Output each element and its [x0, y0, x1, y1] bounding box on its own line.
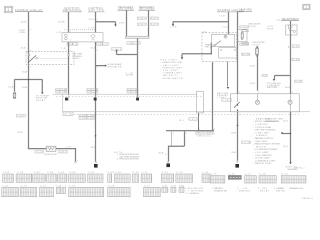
svg-text:RELAY: RELAY	[205, 45, 214, 48]
svg-text:7.5-R: 7.5-R	[222, 27, 228, 29]
ECU name label boxes	[196, 132, 214, 135]
svg-text:(R): (R)	[91, 39, 95, 41]
svg-text:- ROOM LIGHT L-B: - ROOM LIGHT L-B	[161, 78, 184, 80]
arrowhead turn signal down	[273, 79, 275, 81]
ground square S3	[136, 98, 139, 101]
arrowhead L8 down	[227, 87, 229, 89]
svg-text:2: 2	[258, 92, 259, 94]
svg-text:- LIGHTING: - LIGHTING	[254, 124, 269, 126]
connector label C-23	[242, 30, 249, 32]
svg-text:COMB C-05: COMB C-05	[128, 43, 141, 45]
svg-text:- DAYTIME RUNNING: - DAYTIME RUNNING	[254, 129, 277, 132]
svg-text:20-RW: 20-RW	[126, 75, 133, 77]
L6 connector label A C-16	[242, 53, 250, 55]
svg-text:6: 6	[30, 50, 31, 52]
bulb LO	[288, 100, 292, 104]
arrowhead relay corner down	[181, 57, 183, 59]
svg-text:C-40 C-41: C-40 C-41	[88, 92, 98, 94]
wire L10 thin segment inside lamp box	[290, 94, 292, 112]
svg-text:7: 7	[30, 66, 31, 68]
bracket connector label	[189, 118, 199, 121]
svg-text:C-105 3: C-105 3	[112, 49, 122, 51]
svg-text:C-40 C-41: C-40 C-41	[128, 92, 138, 94]
ECU connector bar	[166, 130, 214, 132]
wire L4a headlight LH drop	[126, 10, 128, 36]
svg-text:C-103: C-103	[80, 118, 86, 120]
svg-text:J-04: J-04	[201, 32, 206, 34]
svg-text:LIGHT: LIGHT	[72, 58, 80, 60]
svg-text:- TURN-SIGNAL: - TURN-SIGNAL	[254, 126, 272, 129]
boundary line B dashed	[64, 113, 300, 115]
wire L1 horizontal run to rheostat	[28, 148, 76, 150]
J/B dashed box	[202, 33, 237, 62]
mid bottom footnote texts	[184, 188, 204, 195]
svg-text:L-R: L-R	[57, 32, 61, 34]
junction dot L10 branch	[290, 133, 292, 135]
svg-text:C-08 2: C-08 2	[222, 100, 230, 102]
svg-text:- HEADLIGHT AIM: - HEADLIGHT AIM	[161, 61, 182, 64]
svg-text:7-B: 7-B	[276, 19, 281, 21]
dimmer switch dashed box	[26, 52, 74, 65]
svg-text:- DIMMER: - DIMMER	[254, 135, 268, 137]
connector label C-24	[17, 114, 26, 117]
svg-text:C-14: C-14	[202, 172, 209, 174]
svg-text:- TAIL LIGHT: - TAIL LIGHT	[161, 64, 180, 67]
dimmer switch contact arm	[29, 55, 36, 62]
svg-text:1 C-33: 1 C-33	[242, 142, 250, 144]
svg-text:DAY-LGT CONTROL: DAY-LGT CONTROL	[196, 132, 213, 135]
wire L7 relay output to control unit	[212, 62, 214, 130]
svg-text:C-30: C-30	[293, 46, 299, 48]
svg-text:15-G: 15-G	[89, 19, 94, 21]
wire L4 connector stub	[137, 97, 139, 101]
wire L4 branch left up-arrow	[117, 51, 138, 55]
svg-text:C-37 2: C-37 2	[151, 24, 158, 26]
svg-text:20-B: 20-B	[158, 152, 164, 154]
connector bracket rect	[197, 91, 204, 113]
svg-text:C-29: C-29	[68, 44, 72, 46]
svg-text:20-G: 20-G	[91, 147, 96, 149]
sheet index box 1	[4, 6, 13, 13]
svg-text:1: 1	[7, 8, 9, 12]
svg-text:FUSE: FUSE	[267, 28, 274, 30]
svg-text:20-B: 20-B	[250, 83, 256, 85]
pin ring L1 end	[75, 162, 77, 164]
svg-text:C-27: C-27	[103, 44, 107, 46]
svg-text:C-30: C-30	[73, 44, 77, 46]
svg-text:C-34: C-34	[295, 81, 301, 83]
svg-text:- BACKUP LIGHT: - BACKUP LIGHT	[254, 162, 273, 165]
wire L4 headlight common down	[137, 38, 139, 97]
svg-text:C-40 C-41: C-40 C-41	[56, 92, 66, 94]
svg-text:1 C-25: 1 C-25	[36, 152, 43, 154]
wire L10 branch to turn signal	[275, 76, 291, 80]
svg-text:1: 1	[70, 40, 71, 42]
svg-text:(0-7): (0-7)	[283, 146, 288, 148]
svg-text:- FOG LAMP: - FOG LAMP	[254, 151, 270, 154]
svg-text:C-05: C-05	[58, 172, 65, 174]
svg-text:- METER: - METER	[254, 146, 267, 148]
svg-text:I C-20: I C-20	[240, 44, 248, 46]
junction dot left branch	[28, 79, 30, 81]
connector pair labels below boundary B at L3	[79, 114, 86, 116]
arrowhead high beam right	[105, 65, 107, 67]
junction dot L3	[95, 135, 97, 137]
svg-text:4: 4	[173, 133, 174, 135]
boundary line B left closure	[62, 94, 64, 112]
svg-text:C-07: C-07	[88, 172, 95, 174]
svg-text:RELAY: RELAY	[260, 190, 270, 193]
wire ECU pin5 drop	[184, 131, 186, 146]
svg-text:INDICATOR: INDICATOR	[107, 66, 122, 69]
relay R1 diode symbol	[91, 34, 96, 38]
wire L3 arrow to high beam indicator	[96, 65, 105, 67]
bulb HI	[255, 100, 259, 104]
sheet index box 2	[303, 4, 310, 10]
svg-text:C-04: C-04	[47, 172, 54, 174]
svg-text:3: 3	[199, 129, 200, 131]
svg-text:C-24 4: C-24 4	[17, 116, 25, 118]
combination meter bar	[126, 36, 150, 38]
svg-text:25-B: 25-B	[250, 66, 256, 68]
svg-text:J-08: J-08	[170, 27, 176, 29]
svg-text:20-G: 20-G	[285, 87, 290, 89]
svg-text:15-G: 15-G	[91, 47, 96, 49]
label under comb bar	[127, 42, 140, 45]
svg-text:2: VEHICLES WITH DRL: 2: VEHICLES WITH DRL	[117, 159, 139, 161]
connector pair labels above boundary A at L3	[87, 88, 98, 90]
boundary line B body	[63, 111, 310, 113]
svg-text:20-R: 20-R	[231, 133, 236, 135]
svg-text:3: 3	[239, 92, 240, 94]
ground square S4	[94, 164, 98, 168]
connector label C-22	[242, 42, 249, 44]
svg-text:5: 5	[186, 133, 187, 135]
svg-text:W-L: W-L	[179, 120, 185, 122]
wire ECU pin4 thin drop	[171, 131, 173, 146]
svg-text:10: 10	[213, 129, 215, 131]
svg-text:C-10: C-10	[133, 172, 140, 174]
headlight relay contact	[215, 41, 222, 46]
big note list block	[254, 117, 280, 165]
svg-text:C-01: C-01	[3, 172, 10, 174]
svg-text:2: 2	[70, 30, 71, 32]
arrowhead joint conn down	[114, 25, 116, 27]
wire L6 J/B fuse feed down to ground	[237, 11, 239, 160]
svg-text:J-07: J-07	[66, 147, 71, 149]
svg-text:C-06: C-06	[69, 172, 76, 174]
dashed link relay to switch	[64, 29, 96, 31]
svg-text:- TAILLIGHT: - TAILLIGHT	[254, 140, 269, 143]
svg-text:C-26 4: C-26 4	[59, 152, 66, 154]
arrowhead H1 down	[172, 24, 174, 26]
svg-text:C-17: C-17	[245, 174, 252, 176]
wire relay output corner arrow	[182, 43, 211, 58]
arrow label up C-105	[112, 48, 122, 51]
relay box R1 passing control	[62, 33, 103, 42]
svg-text:C-15: C-15	[263, 75, 267, 77]
wire L6 thin segment inside lamp box	[237, 94, 239, 112]
wire bracket drop to ECU bar	[198, 113, 200, 130]
J/B inner fuse block	[219, 48, 237, 58]
wire L1 drop to connector pin	[75, 148, 77, 162]
svg-text:C-28: C-28	[97, 44, 101, 46]
svg-text:C-82: C-82	[88, 27, 95, 29]
svg-text:20-B: 20-B	[22, 71, 28, 73]
svg-text:SWITCH: SWITCH	[276, 191, 286, 193]
svg-text:C-39 10: C-39 10	[189, 119, 198, 121]
wire J/B output to daytime light	[227, 62, 229, 87]
arrowhead up to label	[115, 49, 117, 51]
svg-text:SWITCH: SWITCH	[267, 87, 278, 89]
svg-text:FUSE BOX: FUSE BOX	[239, 191, 251, 193]
wire ECU ground run	[168, 146, 185, 161]
svg-text:- SIDE MARKER: - SIDE MARKER	[254, 154, 273, 157]
svg-text:C-19: C-19	[282, 174, 289, 176]
wire L8 fusible link 4 into J/B	[228, 12, 230, 34]
wire L9 dedicated fuse drop	[257, 47, 259, 91]
fuse symbol in L6 rect	[241, 31, 243, 39]
headlight bulbs box	[230, 94, 299, 112]
svg-text:25-B: 25-B	[8, 87, 14, 89]
taillight relay box	[286, 25, 297, 35]
svg-text:C-23: C-23	[243, 30, 248, 32]
svg-text:7.5-R: 7.5-R	[219, 15, 225, 17]
L10 connector label C-34	[295, 80, 302, 82]
svg-text:- COLUMN SWITCH ASSY: - COLUMN SWITCH ASSY	[254, 148, 279, 151]
svg-text:J/C (3): J/C (3)	[64, 114, 72, 116]
svg-text:FUSIBLE LINK: FUSIBLE LINK	[214, 191, 228, 193]
pin ring above S4	[95, 162, 97, 164]
wire L10 taillight relay down	[290, 21, 292, 163]
svg-text:- PASSING CONTROL: - PASSING CONTROL	[254, 137, 274, 140]
svg-text:C-18: C-18	[259, 174, 266, 176]
svg-text:FUSIBLE LINK (2): FUSIBLE LINK (2)	[15, 8, 42, 12]
svg-text:- CLEARANCE LIGHT: - CLEARANCE LIGHT	[254, 159, 277, 162]
svg-text:CONN.: CONN.	[18, 32, 25, 34]
svg-text:C-03: C-03	[34, 172, 41, 174]
svg-text:C-11: C-11	[142, 172, 149, 174]
boundary line A firewall	[53, 93, 198, 95]
wire L3 lighting switch feed	[95, 12, 97, 162]
svg-text:L-R: L-R	[62, 48, 66, 50]
svg-text:5: 5	[97, 19, 98, 21]
fuse F2 dedicated	[256, 47, 259, 57]
svg-text:C-12: C-12	[162, 172, 169, 174]
ground square S6	[235, 164, 239, 168]
wire L10 branch to note list	[282, 133, 291, 135]
svg-text:RHEOSTAT: RHEOSTAT	[45, 153, 58, 156]
wire L9 thin stub into lamp box	[257, 94, 259, 100]
fuse rect on L6	[237, 29, 247, 42]
L6 connector label I C-15	[240, 26, 249, 28]
wire H1 horizontal fusible link run	[173, 22, 229, 25]
wire L3 connector stub	[95, 94, 97, 100]
boundary line A dashed	[56, 96, 203, 98]
L6 connector label I C-20	[240, 43, 249, 45]
svg-text:* 3: CANADA: * 3: CANADA	[184, 192, 200, 195]
connector labels under R1	[67, 43, 72, 46]
svg-text:C-33: C-33	[293, 59, 299, 61]
svg-text:FUSE: FUSE	[253, 44, 261, 46]
wire L1 battery feed vertical	[15, 10, 291, 162]
arrowhead note list left	[281, 132, 283, 134]
ground square S1	[65, 98, 68, 101]
junction box on line B	[63, 112, 73, 115]
wire L5a headlight RH drop	[148, 10, 150, 36]
svg-text:FUSE: FUSE	[249, 26, 257, 28]
rheostat box W	[46, 146, 56, 151]
rheostat connector labels	[35, 151, 44, 154]
svg-text:(2P): (2P)	[119, 22, 124, 24]
svg-text:A C-16: A C-16	[242, 53, 249, 56]
wire L2 connector stub	[68, 94, 70, 100]
pin ring above S6	[237, 161, 239, 163]
svg-text:20-B: 20-B	[18, 132, 24, 134]
svg-text:C-13: C-13	[176, 172, 183, 174]
dimmer contact in bulb box	[234, 102, 240, 108]
svg-text:4: 4	[70, 50, 71, 52]
fuse F1 left	[13, 92, 16, 99]
L6 mid connector label	[242, 141, 251, 144]
connector pair labels above boundary A at L2	[56, 88, 67, 90]
svg-text:RELAY: RELAY	[36, 99, 46, 102]
svg-text:(0-7): (0-7)	[283, 120, 288, 122]
relay R1 coil	[65, 34, 68, 37]
arrowhead L10 bottom down	[289, 162, 291, 164]
junction dot L6	[237, 125, 239, 127]
svg-text:REMARKS (Hi): REMARKS (Hi)	[289, 187, 303, 190]
wire L3 branch to joint connector	[96, 22, 116, 25]
branch connector label left	[262, 75, 267, 77]
svg-text:20-R: 20-R	[231, 152, 236, 154]
L10 connector label C-33	[292, 58, 299, 60]
svg-text:8: 8	[97, 66, 98, 68]
svg-text:15-GR: 15-GR	[58, 22, 65, 24]
headlight relay coil	[224, 35, 227, 38]
svg-text:- ROOM LAMP: - ROOM LAMP	[254, 157, 271, 160]
svg-text:C-34 2: C-34 2	[138, 18, 146, 20]
bottom right legend texts	[212, 187, 304, 193]
ground square S5	[166, 164, 170, 168]
svg-text:C-15: C-15	[211, 174, 218, 176]
wire L2 ignition feed	[68, 12, 70, 94]
svg-text:20-B: 20-B	[21, 48, 27, 50]
svg-text:50-B: 50-B	[21, 22, 27, 24]
svg-text:I C-15: I C-15	[240, 27, 248, 29]
svg-text:C-08: C-08	[108, 172, 115, 174]
svg-text:C-105: C-105	[88, 118, 94, 120]
connector labels right of RH drop	[150, 17, 158, 19]
headlight relay box inside J/B	[212, 34, 235, 46]
pin ring above S5	[167, 161, 169, 163]
svg-text:UNIT (C-55): UNIT (C-55)	[197, 135, 210, 137]
svg-text:C-09: C-09	[115, 172, 122, 174]
svg-text:20-B: 20-B	[22, 87, 28, 89]
connector pair labels above boundary A at L4	[127, 88, 138, 90]
svg-text:- HEADLIGHT AUTO SYSTEM: - HEADLIGHT AUTO SYSTEM	[254, 143, 280, 146]
junction dot relay corner	[211, 53, 212, 54]
svg-text:8W-80-4: 8W-80-4	[302, 198, 312, 200]
svg-text:C-02: C-02	[17, 172, 24, 174]
ground square S2	[94, 98, 97, 101]
wire left fusible branch	[15, 80, 43, 93]
svg-text:4: 4	[239, 114, 240, 116]
svg-text:C-35 2: C-35 2	[138, 24, 146, 26]
svg-text:1: 1	[292, 92, 293, 94]
svg-text:1: 1	[30, 29, 31, 31]
svg-text:- LIGHT UNIT: - LIGHT UNIT	[254, 132, 271, 134]
svg-text:5: 5	[97, 50, 98, 52]
svg-text:1: 1	[77, 160, 78, 162]
svg-text:DESTINATION: DESTINATION	[265, 120, 280, 123]
connector labels between headlight drops	[137, 17, 146, 19]
svg-text:J/B No.2: J/B No.2	[294, 167, 304, 169]
arrowhead power window down	[41, 92, 43, 94]
svg-text:C-36 2: C-36 2	[151, 18, 158, 20]
